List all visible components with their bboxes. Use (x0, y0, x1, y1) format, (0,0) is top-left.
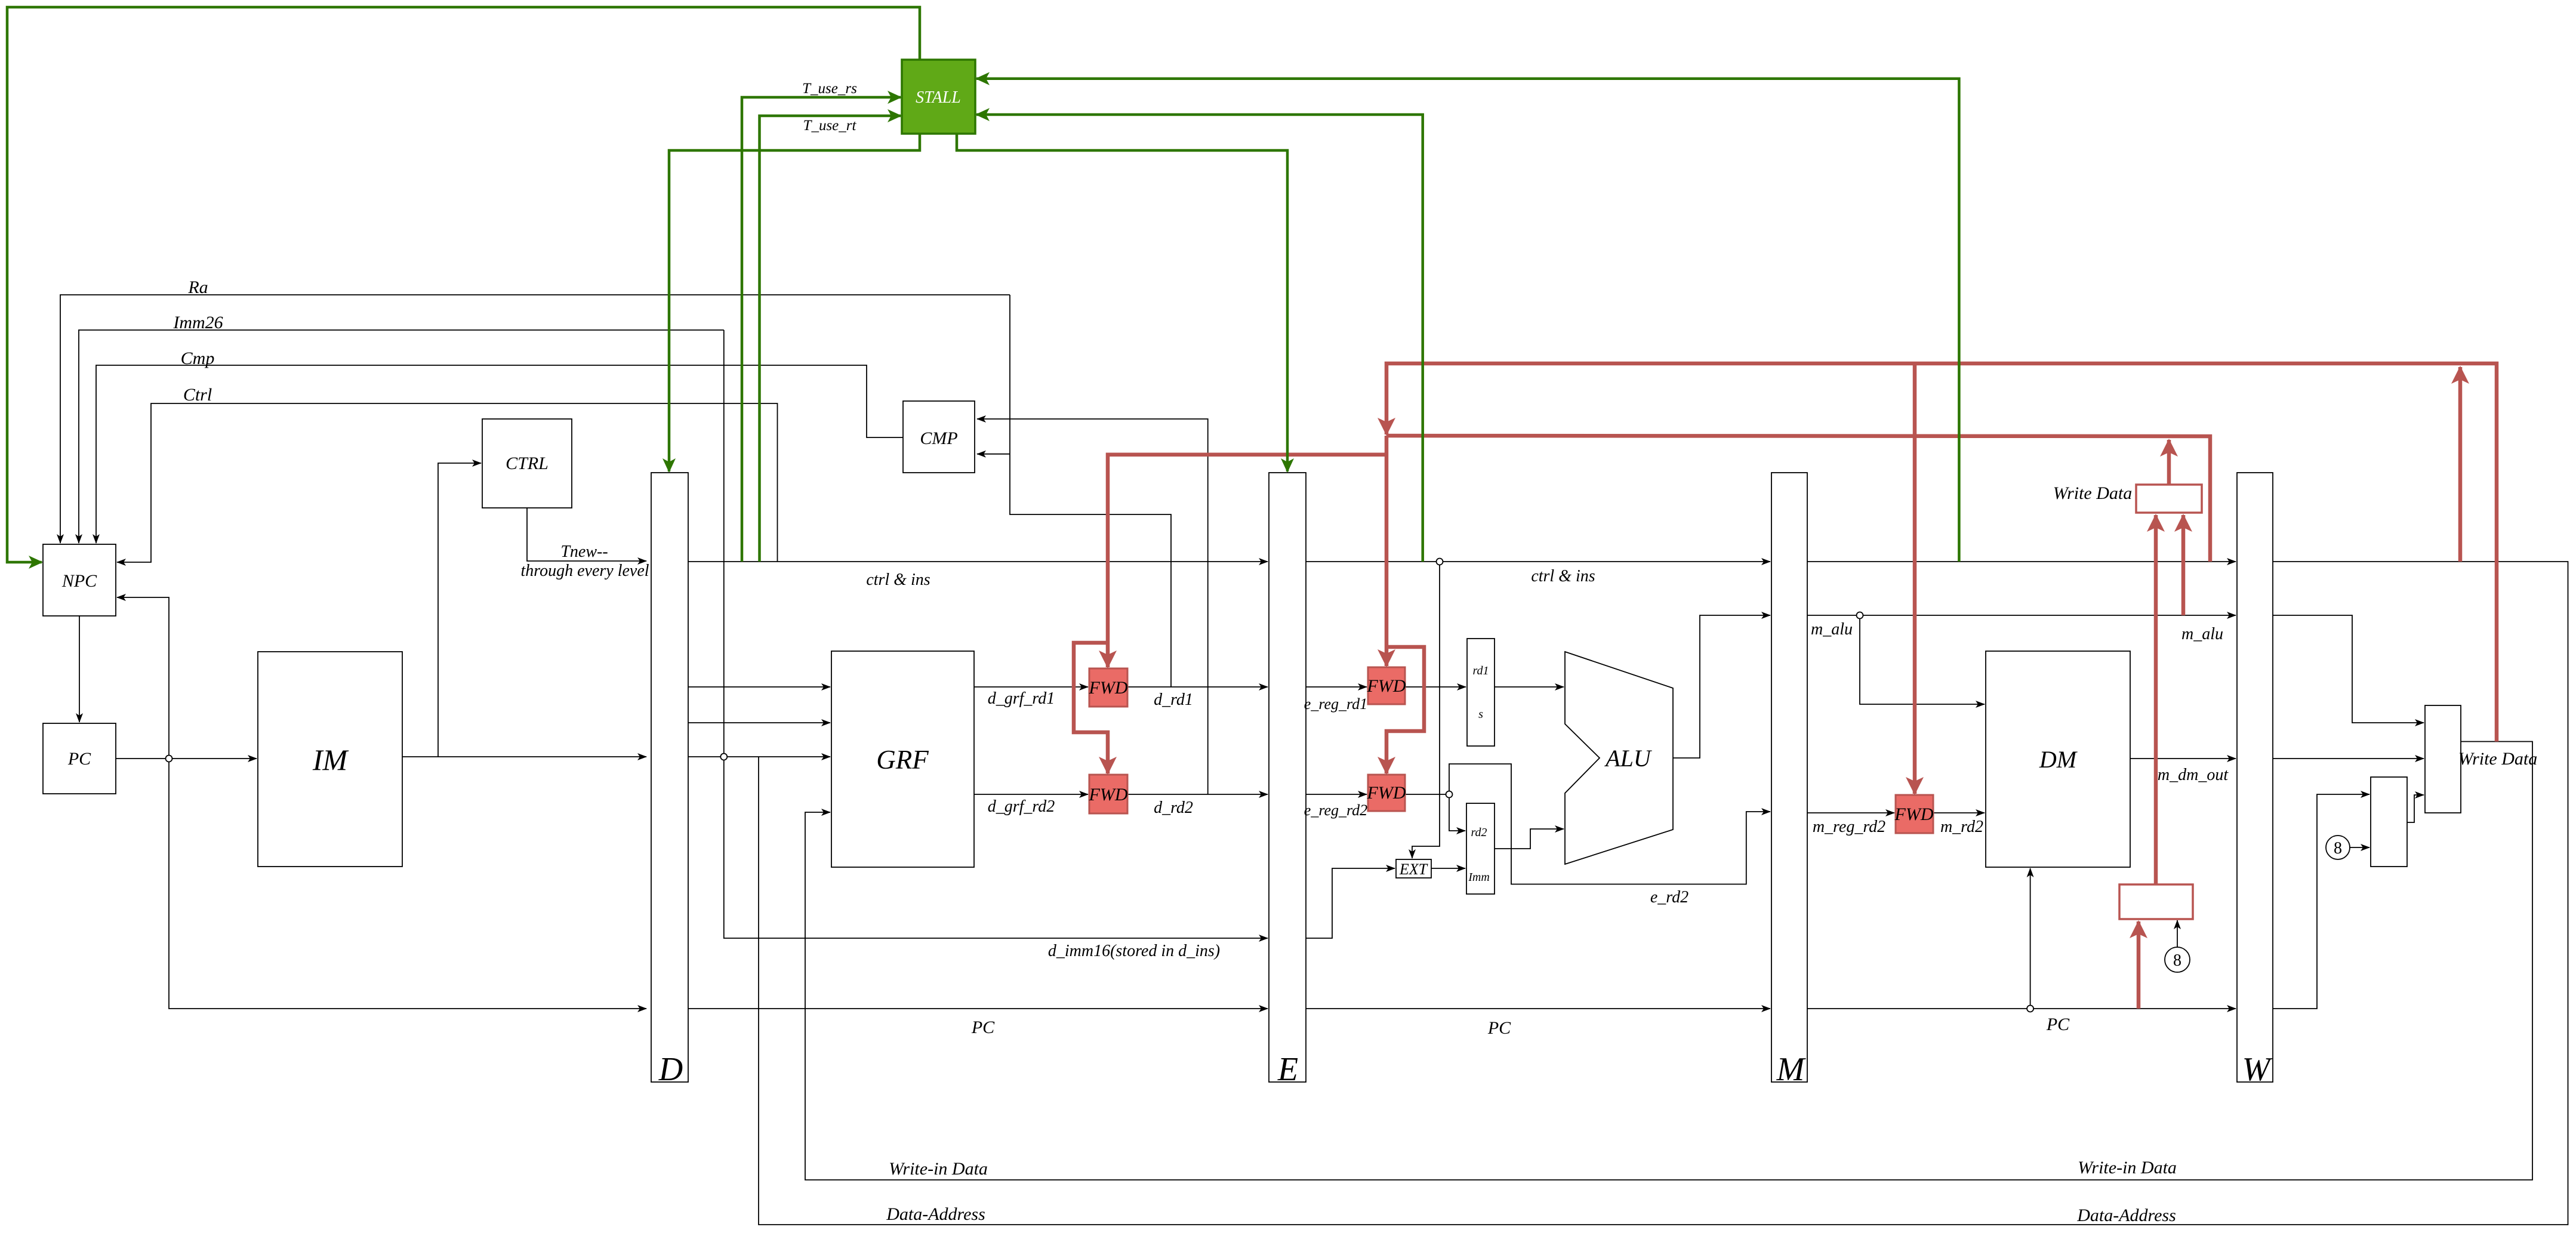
svg-text:e_reg_rd2: e_reg_rd2 (1304, 802, 1367, 819)
svg-text:FWD: FWD (1367, 676, 1406, 696)
wire Cmp: NPC top input from CMP output (96, 365, 903, 543)
svg-text:D: D (658, 1051, 683, 1088)
svg-text:Imm26: Imm26 (172, 313, 223, 332)
wire m_reg_rd2 M to FWD (1807, 812, 1894, 813)
svg-text:EXT: EXT (1399, 861, 1428, 878)
svg-text:PC: PC (67, 749, 91, 769)
red wire M Write Data box output up (2167, 440, 2171, 485)
wire ALU out e_alu to M (1673, 615, 1770, 758)
svg-text:GRF: GRF (876, 745, 929, 775)
green wire T_use_rt into STALL (760, 116, 901, 562)
node PC-IM junction (166, 756, 172, 762)
svg-text:ctrl & ins: ctrl & ins (1531, 567, 1595, 585)
red wire forward jog to D FWD rd2 (1074, 643, 1108, 773)
wire D to GRF address 1 (688, 686, 830, 688)
svg-text:M: M (1776, 1051, 1807, 1088)
red wire forward jog to E FWD rd2 (1386, 647, 1424, 773)
svg-text:d_grf_rd2: d_grf_rd2 (988, 797, 1055, 816)
node m_alu junction (1857, 612, 1863, 619)
wire e_reg_rd1 E to FWD (1306, 686, 1367, 688)
red wire forward feed to E FWD rd1 (1385, 436, 1389, 666)
GRF box (831, 651, 974, 867)
svg-text:m_dm_out: m_dm_out (2158, 766, 2229, 784)
svg-text:rd2: rd2 (1471, 826, 1487, 839)
svg-text:T_use_rs: T_use_rs (802, 81, 857, 97)
svg-text:Ctrl: Ctrl (183, 385, 212, 405)
svg-text:STALL: STALL (916, 88, 961, 107)
wire d_grf_rd2 GRF to FWD (974, 794, 1088, 795)
wire FWD to rd1 mux (1405, 686, 1466, 688)
svg-text:8: 8 (2334, 839, 2342, 858)
EXT box (1396, 859, 1431, 878)
svg-text:Ra: Ra (187, 278, 208, 297)
register D (651, 473, 688, 1082)
svg-text:d_grf_rd1: d_grf_rd1 (988, 689, 1055, 708)
svg-text:FWD: FWD (1367, 783, 1406, 803)
svg-text:d_imm16(stored in d_ins): d_imm16(stored in d_ins) (1048, 942, 1220, 960)
svg-text:Write Data: Write Data (2458, 749, 2538, 769)
register E (1269, 473, 1306, 1082)
wire d_imm16 vertical and line into E (724, 330, 1268, 938)
svg-text:T_use_rt: T_use_rt (803, 118, 857, 134)
wire 8 constant into M PC+8 box (2177, 920, 2178, 947)
svg-text:ALU: ALU (1604, 745, 1653, 772)
svg-text:Cmp: Cmp (181, 349, 215, 368)
wire PC to IM (116, 758, 257, 759)
M PC+8 box (2119, 884, 2193, 919)
wire CMP input 2 from d_rd1 tap joining Ra vertical (1010, 295, 1171, 687)
red wire m_alu after W up to write data line (2458, 367, 2463, 562)
FWD box E rd1 (1368, 667, 1405, 704)
green wire T_use_rs into STALL (742, 97, 901, 562)
IM box (258, 652, 402, 867)
red wire forward feed to D FWD rd1 (1108, 455, 1386, 667)
svg-text:FWD: FWD (1089, 785, 1128, 804)
wire d_rd1 FWD to E (1127, 686, 1268, 688)
M Write Data box (2136, 485, 2202, 513)
wire rd1 mux to ALU (1495, 686, 1564, 688)
wire IM branch to CTRL (438, 463, 481, 757)
ALU shape (1565, 652, 1673, 864)
wire d_rd2 FWD to E (1127, 794, 1268, 795)
svg-text:e_rd2: e_rd2 (1650, 888, 1688, 907)
wire Data-Address loop from W bus to GRF line (759, 562, 2568, 1225)
wire Ra: NPC top input from rd1 tap (60, 295, 1010, 543)
green wire M Tnew into STALL (976, 79, 1959, 562)
FWD box D rd1 (1089, 668, 1127, 707)
red wire PC up into M PC+8 box (2137, 921, 2141, 1009)
green wire STALL to D enable (669, 134, 920, 471)
wire PC after W to PC+8 box (2273, 794, 2369, 1009)
svg-text:m_rd2: m_rd2 (1940, 818, 1983, 836)
red wire M PC+8 box up into M Write Data box (2154, 515, 2158, 884)
circled 8 at M (2165, 947, 2190, 972)
svg-text:Data-Address: Data-Address (886, 1204, 985, 1224)
wire PC bus into D (169, 759, 646, 1009)
svg-text:CTRL: CTRL (506, 454, 549, 473)
svg-text:through every level: through every level (520, 562, 649, 580)
svg-text:s: s (1478, 708, 1483, 721)
node e_reg_rd2 junction (1446, 791, 1453, 798)
wire EXT feed from ctrl bus (1412, 562, 1440, 858)
mux rd1/s (1467, 639, 1495, 746)
node imm16 junction on GRF line (720, 754, 727, 760)
svg-text:Write-in Data: Write-in Data (2078, 1158, 2177, 1177)
FWD box E rd2 (1368, 775, 1405, 811)
svg-text:E: E (1277, 1051, 1298, 1088)
svg-text:FWD: FWD (1089, 678, 1128, 698)
wire CMP input 2 arrow (977, 454, 1010, 455)
red wire M write data line to ctrl bus (1386, 436, 2210, 562)
green wire STALL to E enable (957, 134, 1287, 471)
wire ctrl & ins bus M to W (1807, 561, 2236, 562)
red wire m_alu up into M Write Data box (2181, 515, 2186, 615)
svg-text:PC: PC (1487, 1018, 1511, 1038)
wire CTRL Tnew to D (527, 508, 646, 561)
register W (2237, 473, 2273, 1082)
svg-text:m_alu: m_alu (1811, 620, 1853, 639)
wire PC bus E to M (1306, 1008, 1770, 1009)
svg-text:m_reg_rd2: m_reg_rd2 (1813, 818, 1885, 836)
svg-text:W: W (2242, 1051, 2273, 1088)
wire D to GRF address 2 (688, 722, 830, 723)
W Write Data mux box (2425, 705, 2461, 813)
wire e_rd2 branch to M (1449, 764, 1770, 884)
svg-text:Write-in Data: Write-in Data (889, 1159, 988, 1179)
CTRL box (482, 419, 572, 508)
wire PC junction to NPC right (117, 597, 169, 759)
mux rd2/Imm (1466, 803, 1495, 894)
wire m_alu M to W (1807, 615, 2236, 616)
wire d_grf_rd1 GRF to FWD (974, 686, 1088, 688)
wire DM address from m_alu junction (1860, 615, 1985, 704)
svg-text:Write Data: Write Data (2053, 483, 2133, 503)
wire 8 constant into W PC+8 box (2350, 847, 2369, 848)
svg-text:IM: IM (312, 743, 349, 776)
svg-text:Tnew--: Tnew-- (560, 542, 608, 561)
wire ctrl & ins bus D to E (688, 561, 1268, 562)
svg-text:Imm: Imm (1468, 871, 1490, 884)
wire NPC to PC (79, 616, 80, 722)
wire D to GRF address 3 (688, 756, 830, 757)
wire IM to D (instruction) (402, 756, 646, 757)
wire d_imm16 from E to EXT (1306, 868, 1395, 938)
wire ctrl & ins bus E to M (1306, 561, 1770, 562)
wire Imm26: NPC top input from d_imm16 vertical (79, 330, 724, 543)
wire m_dm_out after W to Write Data mux (2273, 758, 2424, 759)
wire EXT to Imm input (1431, 868, 1465, 869)
svg-text:rd1: rd1 (1472, 664, 1489, 677)
node ctrl bus junction at E (1437, 559, 1443, 565)
circled 8 at W (2326, 836, 2350, 859)
wire PC bus D to E (688, 1008, 1268, 1009)
green wire E Tnew into STALL (976, 115, 1423, 562)
wire Ctrl: NPC right input from ctrl bus tap (117, 403, 778, 562)
red wire forward feed to M FWD (1913, 363, 1917, 794)
red wire W write data to E forward junction (1386, 363, 2497, 742)
wire PC bus M to W (1807, 1008, 2236, 1009)
svg-text:8: 8 (2173, 951, 2181, 970)
register M (1771, 473, 1807, 1082)
NPC box (43, 544, 116, 616)
svg-text:PC: PC (971, 1018, 995, 1037)
svg-text:d_rd2: d_rd2 (1154, 799, 1193, 817)
wire rd2/Imm mux to ALU (1495, 829, 1564, 849)
svg-text:d_rd1: d_rd1 (1154, 691, 1193, 709)
svg-text:e_reg_rd1: e_reg_rd1 (1304, 695, 1367, 713)
wire m_alu after W to Write Data mux (2273, 615, 2424, 723)
wire CMP input 1 from d_rd2 tap (977, 419, 1208, 794)
svg-text:FWD: FWD (1894, 804, 1934, 824)
svg-text:NPC: NPC (61, 571, 97, 591)
node PC junction at DM (2027, 1006, 2033, 1012)
W PC+8 box (2371, 777, 2407, 867)
wire m_rd2 FWD to DM (1933, 812, 1985, 813)
FWD box D rd2 (1089, 775, 1127, 813)
FWD box M (1896, 795, 1933, 833)
wire m_dm_out DM to W (2130, 758, 2236, 759)
svg-text:m_alu: m_alu (2181, 625, 2223, 643)
wire PC+8 box to Write Data mux (2407, 795, 2424, 822)
svg-text:PC: PC (2046, 1015, 2070, 1034)
wire FWD to rd2 junction and mux (1405, 794, 1465, 831)
wire PC branch up into DM bottom (2030, 868, 2031, 1009)
svg-text:Data-Address: Data-Address (2076, 1206, 2176, 1225)
CMP box (903, 401, 975, 473)
green wire STALL to NPC enable frame (7, 7, 920, 562)
wire e_reg_rd2 E to FWD (1306, 794, 1367, 795)
STALL box (902, 60, 975, 134)
PC box (43, 723, 116, 794)
DM box (1986, 651, 2130, 867)
svg-text:DM: DM (2039, 746, 2078, 773)
wire Write-in Data loop from Write Data mux to GRF (805, 742, 2532, 1180)
svg-text:CMP: CMP (920, 429, 957, 448)
svg-text:ctrl & ins: ctrl & ins (866, 571, 930, 589)
